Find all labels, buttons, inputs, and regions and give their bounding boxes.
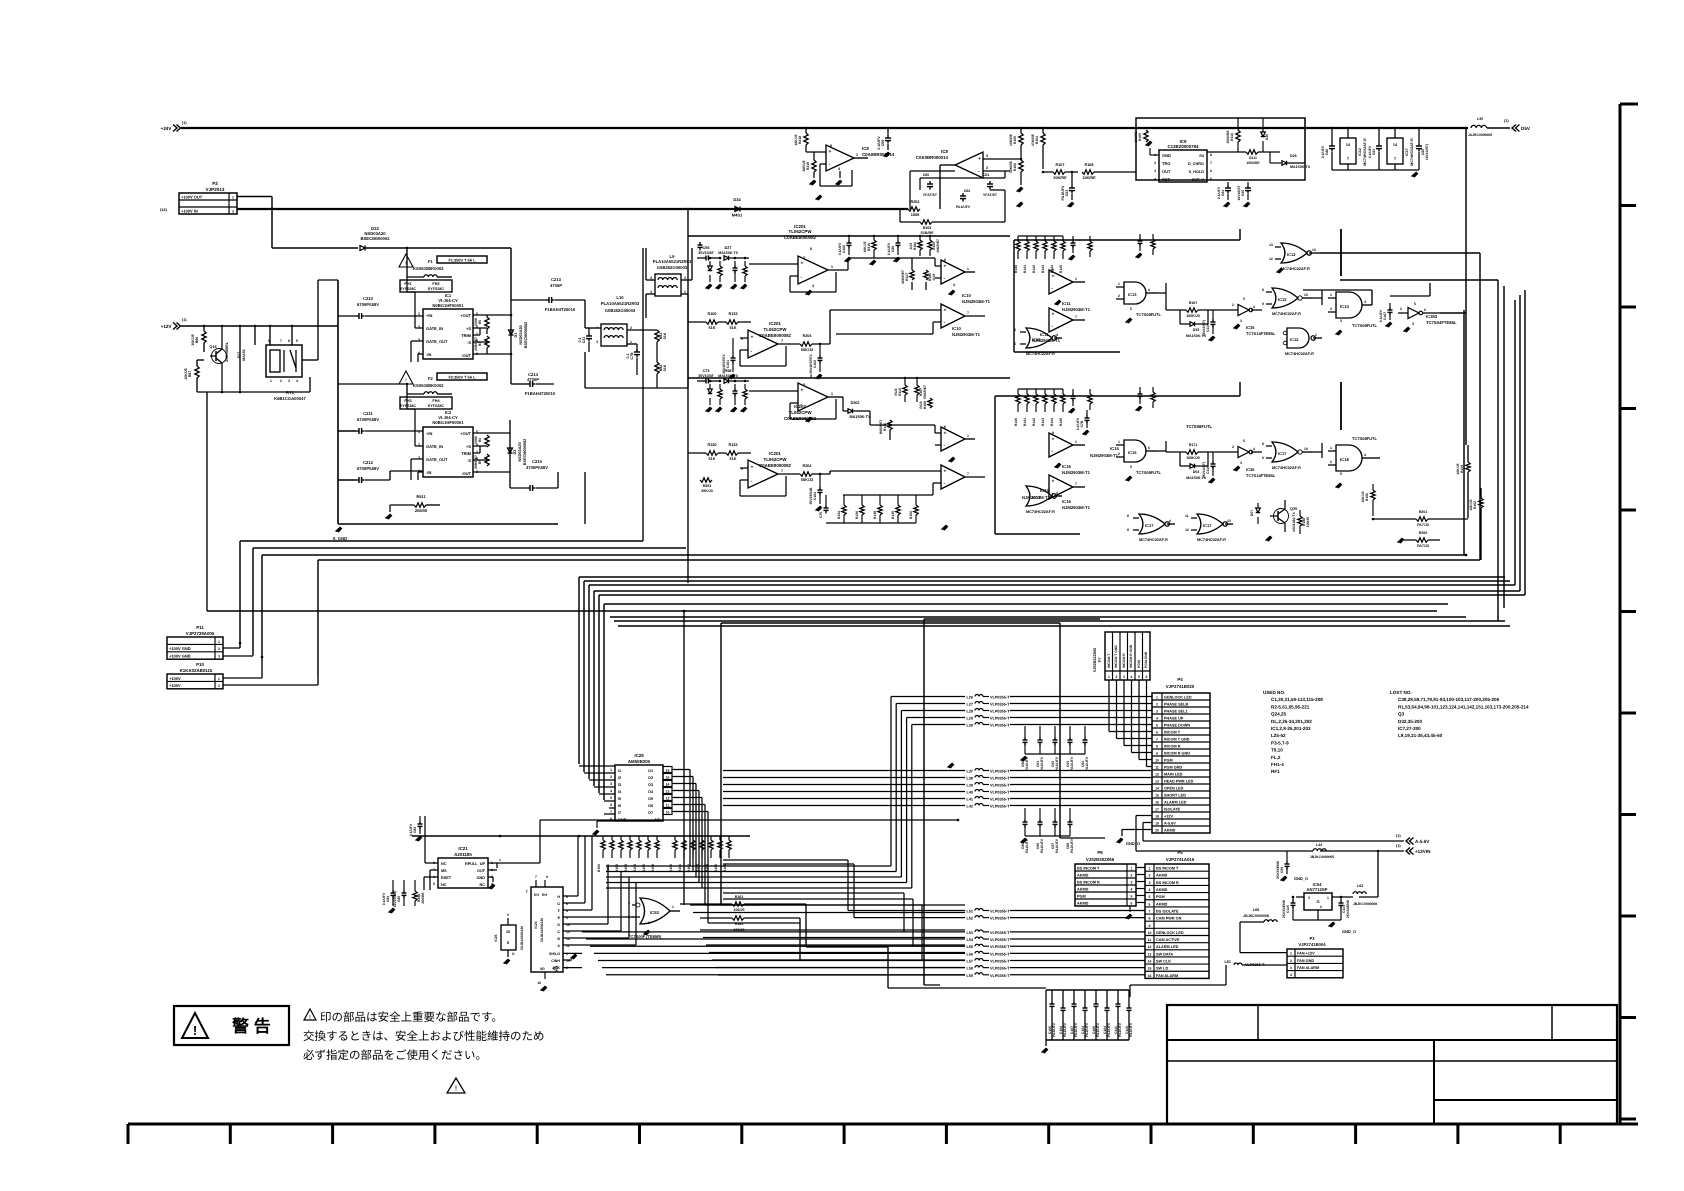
wire upper block frame bbox=[1013, 240, 1015, 352]
svg-text:AKMD: AKMD bbox=[1077, 873, 1089, 877]
svg-text:16: 16 bbox=[506, 930, 510, 934]
svg-text:MC74HC02AF-R: MC74HC02AF-R bbox=[1272, 312, 1301, 316]
capacitor C100 bbox=[698, 244, 703, 246]
svg-text:R153: R153 bbox=[624, 864, 628, 872]
svg-text:8: 8 bbox=[944, 258, 946, 262]
svg-text:5: 5 bbox=[1210, 177, 1212, 181]
svg-text:IC11: IC11 bbox=[1062, 301, 1071, 306]
svg-text:C0JBA0000130: C0JBA0000130 bbox=[520, 926, 524, 950]
svg-text:1: 1 bbox=[672, 905, 674, 909]
svg-text:L28: L28 bbox=[966, 710, 973, 714]
svg-text:R202: R202 bbox=[910, 200, 919, 204]
svg-text:HEAD PWR LED: HEAD PWR LED bbox=[1164, 779, 1194, 783]
svg-text:35V10/3F: 35V10/3F bbox=[698, 251, 714, 255]
svg-text:PA1/UFV: PA1/UFV bbox=[1052, 1022, 1056, 1037]
svg-text:10V10/ST: 10V10/ST bbox=[1237, 185, 1241, 201]
svg-text:ALARM LED: ALARM LED bbox=[1164, 800, 1187, 804]
svg-text:7: 7 bbox=[1394, 157, 1396, 161]
resistor R169 bbox=[928, 398, 932, 408]
svg-text:10K/J5: 10K/J5 bbox=[794, 134, 798, 145]
svg-text:SW CLK: SW CLK bbox=[1156, 960, 1171, 964]
svg-text:GATE_OUT: GATE_OUT bbox=[426, 457, 448, 462]
svg-text:+OUT: +OUT bbox=[460, 313, 471, 318]
svg-text:R119: R119 bbox=[1460, 465, 1464, 473]
svg-text:VJP2013: VJP2013 bbox=[206, 187, 225, 192]
svg-text:+12VIN: +12VIN bbox=[1415, 849, 1431, 854]
wire C21x feed vertical bbox=[337, 280, 339, 524]
svg-text:2SB0588RL: 2SB0588RL bbox=[225, 341, 229, 362]
svg-text:IC36: IC36 bbox=[1246, 467, 1255, 472]
svg-text:PA1/UFV: PA1/UFV bbox=[1063, 1022, 1067, 1037]
capacitor C101 bbox=[731, 357, 736, 359]
svg-text:16V10/ST): 16V10/ST) bbox=[1202, 320, 1206, 336]
svg-text:7: 7 bbox=[1210, 161, 1212, 165]
svg-text:2: 2 bbox=[1330, 460, 1332, 464]
connector P3 bbox=[1287, 949, 1343, 978]
svg-text:IC12: IC12 bbox=[1287, 252, 1296, 257]
svg-text:51K: 51K bbox=[663, 364, 667, 371]
svg-text:VLP0355-T: VLP0355-T bbox=[990, 724, 1010, 728]
svg-text:AM50B205: AM50B205 bbox=[628, 759, 651, 764]
svg-text:10K/J5: 10K/J5 bbox=[863, 241, 867, 252]
svg-text:+100V: +100V bbox=[169, 676, 181, 681]
resistor R108 bbox=[1082, 170, 1094, 174]
svg-text:K6B1CGA00047: K6B1CGA00047 bbox=[274, 396, 306, 401]
svg-text:I1: I1 bbox=[618, 769, 621, 773]
svg-text:OPEN LED: OPEN LED bbox=[1164, 786, 1184, 790]
svg-text:4: 4 bbox=[1149, 888, 1151, 892]
wire IC14 to bundle bbox=[1371, 290, 1373, 305]
svg-text:IC17: IC17 bbox=[1032, 495, 1041, 500]
svg-text:C61: C61 bbox=[983, 173, 990, 177]
svg-text:C0A0BR000014: C0A0BR000014 bbox=[862, 152, 895, 157]
svg-text:0.1/UFV: 0.1/UFV bbox=[1217, 186, 1221, 199]
svg-text:L29: L29 bbox=[966, 717, 973, 721]
svg-text:5: 5 bbox=[610, 796, 612, 800]
svg-text:+: + bbox=[944, 264, 947, 270]
wire P4 +12V bbox=[1136, 815, 1152, 817]
svg-text:IC17: IC17 bbox=[1278, 451, 1287, 456]
svg-text:IC12: IC12 bbox=[1358, 148, 1362, 156]
svg-text:CINH: CINH bbox=[551, 959, 560, 963]
svg-text:(1): (1) bbox=[182, 121, 187, 125]
svg-text:F1BAH4720010: F1BAH4720010 bbox=[525, 391, 556, 396]
wire bus y621 bbox=[614, 620, 1505, 622]
svg-text:1500/RE: 1500/RE bbox=[1226, 130, 1230, 144]
wires IC28 left bbox=[579, 765, 615, 767]
connector P7 bbox=[1105, 632, 1150, 680]
svg-text:330K: 330K bbox=[474, 435, 478, 444]
svg-text:R134: R134 bbox=[837, 511, 841, 519]
svg-text:F2:350V T 5A L: F2:350V T 5A L bbox=[448, 376, 476, 380]
title block left thin line bbox=[1167, 1060, 1434, 1062]
svg-text:6: 6 bbox=[610, 803, 612, 807]
svg-text:IC201: IC201 bbox=[769, 451, 781, 456]
wire IC201c out bbox=[829, 471, 831, 474]
svg-text:13: 13 bbox=[1269, 243, 1273, 247]
svg-text:S_HOLD: S_HOLD bbox=[1189, 170, 1205, 174]
svg-text:A-5.6V: A-5.6V bbox=[1415, 839, 1430, 844]
svg-text:8: 8 bbox=[288, 339, 290, 343]
svg-text:VLP0355-T: VLP0355-T bbox=[990, 703, 1010, 707]
comparator IC11b bbox=[1049, 308, 1073, 332]
svg-text:O3: O3 bbox=[648, 783, 653, 787]
svg-text:IC13: IC13 bbox=[1128, 292, 1137, 297]
svg-text:10: 10 bbox=[1155, 758, 1159, 762]
capacitor C211 bbox=[358, 428, 360, 434]
capacitor C212 bbox=[358, 477, 360, 483]
and gate IC14 bbox=[1336, 292, 1362, 318]
svg-text:SH/LO: SH/LO bbox=[549, 952, 560, 956]
svg-text:4: 4 bbox=[610, 789, 612, 793]
svg-text:3: 3 bbox=[1131, 880, 1133, 884]
svg-text:PA1/UFV: PA1/UFV bbox=[1061, 185, 1065, 201]
svg-text:5: 5 bbox=[1130, 465, 1132, 469]
svg-text:VLP0355-T: VLP0355-T bbox=[990, 784, 1010, 788]
resistor R219 bbox=[812, 160, 816, 172]
wire resistor bus rail bbox=[412, 835, 750, 837]
svg-text:5: 5 bbox=[628, 915, 630, 919]
resistor R203b bbox=[920, 220, 932, 224]
svg-text:F2: F2 bbox=[428, 376, 433, 381]
wire IC2 bottom rail bbox=[338, 523, 558, 525]
resistor R110 bbox=[1236, 130, 1240, 142]
resistor R104 bbox=[1041, 133, 1045, 145]
inverter IC35 bbox=[1238, 305, 1249, 316]
capacitor C210 bbox=[358, 313, 360, 319]
svg-text:MA150K-TX: MA150K-TX bbox=[1290, 165, 1311, 169]
svg-text:SW DATA: SW DATA bbox=[1156, 952, 1173, 956]
comparator IC10a bbox=[941, 260, 965, 284]
svg-text:50K/RE7: 50K/RE7 bbox=[923, 385, 927, 399]
transformer L9 bbox=[655, 274, 681, 296]
svg-text:+100V GND: +100V GND bbox=[169, 654, 191, 659]
svg-text:16: 16 bbox=[1148, 974, 1152, 978]
svg-text:AKMD: AKMD bbox=[1077, 901, 1089, 905]
svg-text:3: 3 bbox=[1123, 675, 1125, 679]
svg-text:3: 3 bbox=[288, 379, 290, 383]
svg-text:Q25: Q25 bbox=[1290, 507, 1297, 511]
svg-text:51K: 51K bbox=[730, 457, 737, 461]
wires left mesh to L51 rows bbox=[848, 910, 965, 912]
svg-text:NJM2903M-T1: NJM2903M-T1 bbox=[962, 299, 991, 304]
svg-text:25V33/EHB: 25V33/EHB bbox=[1276, 860, 1280, 878]
svg-text:6: 6 bbox=[1146, 675, 1148, 679]
svg-text:PA1/UFV: PA1/UFV bbox=[1085, 1022, 1089, 1037]
svg-text:R162: R162 bbox=[687, 864, 691, 872]
svg-text:IC10: IC10 bbox=[962, 293, 972, 298]
svg-text:C59: C59 bbox=[881, 140, 885, 147]
svg-text:R203: R203 bbox=[703, 484, 712, 488]
svg-text:NC: NC bbox=[441, 883, 447, 887]
svg-text:C1,30,31,59-113,115-208: C1,30,31,59-113,115-208 bbox=[1271, 697, 1323, 702]
wire right bundle verticals bbox=[1463, 310, 1465, 555]
svg-text:+S: +S bbox=[466, 326, 471, 331]
resistor R184 bbox=[918, 240, 922, 250]
wire +24V rail bbox=[181, 127, 1468, 129]
svg-text:L59: L59 bbox=[966, 974, 973, 978]
svg-text:R0R/RE7: R0R/RE7 bbox=[879, 420, 883, 434]
svg-text:D34: D34 bbox=[733, 197, 741, 202]
svg-text:VJP2741B004: VJP2741B004 bbox=[1298, 942, 1326, 947]
svg-text:51K: 51K bbox=[663, 332, 667, 339]
title block top row cell line 1 bbox=[1257, 1005, 1259, 1040]
svg-text:D32,35-200: D32,35-200 bbox=[1398, 719, 1422, 724]
svg-text:C210: C210 bbox=[363, 296, 374, 301]
resistor R148 bbox=[1298, 516, 1302, 526]
svg-text:C: C bbox=[557, 930, 560, 934]
wire P4 A-5.6V out bbox=[1143, 822, 1152, 824]
svg-text:EYFS28C: EYFS28C bbox=[400, 287, 416, 291]
svg-text:50K/J3: 50K/J3 bbox=[801, 478, 813, 482]
svg-text:C212: C212 bbox=[363, 460, 374, 465]
svg-text:1: 1 bbox=[610, 768, 612, 772]
wire bus y626 bbox=[618, 625, 1510, 627]
svg-text:C73: C73 bbox=[703, 369, 710, 373]
diode D35 bbox=[1261, 132, 1266, 137]
resistor R167b bbox=[1186, 308, 1198, 312]
svg-text:IC15: IC15 bbox=[1128, 450, 1137, 455]
svg-text:GATE_IN: GATE_IN bbox=[426, 444, 443, 449]
svg-text:BS ISOLATE: BS ISOLATE bbox=[1156, 909, 1179, 913]
svg-text:+12V: +12V bbox=[161, 324, 173, 329]
svg-text:4: 4 bbox=[1156, 716, 1158, 720]
svg-text:IC8: IC8 bbox=[862, 146, 869, 151]
svg-text:3: 3 bbox=[1149, 881, 1151, 885]
svg-text:L51: L51 bbox=[966, 910, 973, 914]
arrow +12VIN bbox=[1406, 848, 1410, 855]
title block right thin line bbox=[1434, 1060, 1617, 1062]
svg-text:C118: C118 bbox=[1206, 466, 1210, 474]
wire IC2 gate loop bbox=[415, 445, 423, 447]
svg-text:6700P/UBV: 6700P/UBV bbox=[357, 302, 379, 307]
inductor L35 bbox=[1471, 125, 1487, 128]
svg-text:O6: O6 bbox=[648, 804, 653, 808]
wire L61 left bbox=[1225, 965, 1227, 985]
svg-text:RF1: RF1 bbox=[1271, 769, 1280, 774]
svg-text:R/J3: R/J3 bbox=[894, 388, 898, 395]
svg-text:47K/RE: 47K/RE bbox=[1031, 133, 1035, 146]
diode D202 bbox=[848, 409, 853, 414]
svg-text:1000: 1000 bbox=[911, 213, 919, 217]
resistor row R15x bbox=[601, 840, 605, 850]
svg-text:5: 5 bbox=[1156, 723, 1158, 727]
svg-text:G: G bbox=[512, 952, 515, 956]
svg-text:6700P/UBV: 6700P/UBV bbox=[357, 417, 379, 422]
svg-text:P3: P3 bbox=[1309, 936, 1315, 941]
wire to IC15a bbox=[869, 411, 871, 425]
svg-text:IC23: IC23 bbox=[534, 921, 538, 928]
svg-text:7: 7 bbox=[280, 339, 282, 343]
svg-text:D54: D54 bbox=[1193, 470, 1200, 474]
svg-text:20K/J3: 20K/J3 bbox=[701, 489, 713, 493]
svg-text:R136: R136 bbox=[883, 423, 887, 431]
wire IC21 right bbox=[488, 862, 497, 864]
wire D32 to C213 node bbox=[365, 247, 511, 249]
svg-text:3: 3 bbox=[1308, 896, 1310, 900]
svg-text:R142: R142 bbox=[1032, 265, 1036, 273]
input network C66/D27 bbox=[705, 256, 707, 261]
svg-text:P11: P11 bbox=[196, 625, 204, 630]
capacitor group C90-C94 bbox=[1023, 739, 1028, 741]
svg-text:8: 8 bbox=[944, 425, 946, 429]
svg-text:+IN: +IN bbox=[426, 431, 432, 436]
connector P4 bbox=[1152, 693, 1210, 833]
svg-text:2: 2 bbox=[610, 775, 612, 779]
resistor R106 bbox=[1019, 160, 1023, 172]
svg-text:(1): (1) bbox=[1396, 834, 1401, 838]
svg-text:35V33/54B: 35V33/54B bbox=[809, 487, 813, 505]
svg-text:L60: L60 bbox=[1253, 908, 1260, 912]
capacitor C84 bbox=[391, 892, 396, 894]
wire P10 pin1 bbox=[223, 677, 262, 679]
svg-text:R87: R87 bbox=[188, 371, 192, 378]
svg-text:IC12: IC12 bbox=[1278, 297, 1287, 302]
svg-text:R106: R106 bbox=[1013, 163, 1017, 171]
svg-text:2: 2 bbox=[1118, 294, 1120, 298]
svg-text:+IN: +IN bbox=[426, 313, 432, 318]
svg-text:0/J3: 0/J3 bbox=[909, 243, 913, 250]
comparator IC15a bbox=[941, 427, 965, 451]
svg-text:R156: R156 bbox=[651, 864, 655, 872]
wire IC9 top rail bbox=[1135, 127, 1138, 130]
svg-text:7: 7 bbox=[1156, 737, 1158, 741]
page frame right border bbox=[1619, 104, 1622, 1125]
capacitor C118 bbox=[1211, 463, 1216, 465]
svg-text:R204: R204 bbox=[802, 464, 812, 468]
svg-text:3: 3 bbox=[1240, 461, 1242, 465]
svg-text:17: 17 bbox=[1155, 807, 1159, 811]
svg-text:4: 4 bbox=[838, 167, 840, 171]
+12V input arrow bbox=[173, 323, 177, 330]
svg-text:1: 1 bbox=[1327, 896, 1329, 900]
svg-text:VLP0355-T: VLP0355-T bbox=[990, 974, 1010, 978]
svg-text:51K: 51K bbox=[730, 326, 737, 330]
resistor R157 bbox=[915, 385, 919, 395]
svg-text:10K/J5: 10K/J5 bbox=[184, 368, 188, 380]
svg-text:9: 9 bbox=[1156, 751, 1158, 755]
svg-text:AKMD: AKMD bbox=[1156, 902, 1168, 906]
svg-text:TC7S08FUTL: TC7S08FUTL bbox=[1352, 436, 1377, 441]
svg-text:L56: L56 bbox=[966, 952, 973, 956]
svg-text:2: 2 bbox=[1232, 303, 1234, 307]
ground R511 bbox=[386, 514, 391, 519]
svg-text:10: 10 bbox=[537, 981, 541, 985]
svg-text:10K/J3: 10K/J3 bbox=[1361, 491, 1365, 502]
capacitor C102 bbox=[818, 357, 823, 359]
svg-text:+: + bbox=[829, 149, 832, 155]
resistor R160 bbox=[1371, 490, 1375, 500]
svg-text:FAN ALARM: FAN ALARM bbox=[1156, 974, 1178, 978]
svg-text:-IN: -IN bbox=[426, 470, 431, 475]
svg-text:1500/RE: 1500/RE bbox=[1246, 161, 1260, 165]
svg-text:9: 9 bbox=[1149, 924, 1151, 928]
op-amp IC201a bbox=[798, 256, 828, 284]
svg-text:BSECM000002: BSECM000002 bbox=[360, 236, 390, 241]
svg-text:GND_O: GND_O bbox=[1294, 876, 1308, 881]
svg-text:RH: RH bbox=[542, 893, 547, 897]
svg-text:+: + bbox=[751, 465, 754, 471]
svg-text:4: 4 bbox=[1169, 519, 1171, 523]
svg-text:PA1/UFV: PA1/UFV bbox=[1040, 838, 1044, 853]
svg-text:OUT: OUT bbox=[477, 869, 486, 873]
svg-text:S_GND: S_GND bbox=[333, 536, 347, 541]
svg-text:10: 10 bbox=[1304, 293, 1308, 297]
svg-text:R133: R133 bbox=[728, 312, 737, 316]
svg-text:C213: C213 bbox=[551, 277, 562, 282]
svg-text:2: 2 bbox=[1149, 874, 1151, 878]
wire bus y541 bbox=[240, 540, 643, 542]
svg-text:0.1/UFV: 0.1/UFV bbox=[1321, 145, 1325, 158]
capacitor C167 bbox=[1388, 309, 1393, 311]
svg-text:TRIM: TRIM bbox=[461, 333, 471, 338]
resistor R136b bbox=[888, 420, 892, 430]
svg-text:16: 16 bbox=[1155, 800, 1159, 804]
svg-text:R152: R152 bbox=[615, 864, 619, 872]
fuse F1 bbox=[424, 275, 437, 277]
svg-text:PA7/J3: PA7/J3 bbox=[1417, 544, 1429, 548]
svg-text:10: 10 bbox=[1304, 447, 1308, 451]
svg-text:100/J5: 100/J5 bbox=[1306, 517, 1310, 527]
svg-text:C100: C100 bbox=[842, 245, 846, 253]
svg-text:MS: MS bbox=[441, 869, 447, 873]
resistor R81 bbox=[655, 330, 659, 342]
svg-text:R169: R169 bbox=[923, 401, 927, 409]
svg-text:IC53: IC53 bbox=[650, 910, 660, 915]
svg-text:NSD03A20: NSD03A20 bbox=[519, 325, 523, 344]
wire IC2 outputs bbox=[473, 432, 510, 434]
wire left col down bbox=[206, 392, 208, 611]
svg-text:R160: R160 bbox=[1365, 493, 1369, 501]
svg-text:11: 11 bbox=[1155, 765, 1159, 769]
svg-text:5: 5 bbox=[1149, 895, 1151, 899]
svg-text:C7B: C7B bbox=[630, 352, 634, 360]
junction dots +12V rail bbox=[203, 325, 206, 328]
svg-text:0.1/UFV: 0.1/UFV bbox=[409, 823, 413, 836]
svg-text:1: 1 bbox=[967, 267, 969, 271]
svg-text:8: 8 bbox=[1052, 268, 1054, 272]
svg-text:VJP2741A016: VJP2741A016 bbox=[1166, 857, 1195, 862]
svg-text:VLP0355-T: VLP0355-T bbox=[990, 777, 1010, 781]
svg-text:20R/RE7: 20R/RE7 bbox=[474, 455, 478, 469]
svg-text:L26: L26 bbox=[966, 696, 973, 700]
resistor R511 bbox=[414, 503, 426, 507]
svg-text:TL062CPW: TL062CPW bbox=[789, 229, 813, 234]
capacitor C115a bbox=[1291, 902, 1296, 904]
svg-text:10K/J5: 10K/J5 bbox=[1456, 463, 1460, 474]
svg-text:I6: I6 bbox=[618, 804, 621, 808]
svg-text:2: 2 bbox=[1154, 161, 1156, 165]
capacitor C113 bbox=[1339, 902, 1344, 904]
svg-text:C101: C101 bbox=[726, 360, 730, 368]
svg-text:13: 13 bbox=[1227, 519, 1231, 523]
svg-text:L27: L27 bbox=[966, 703, 973, 707]
fuse F2 box label bbox=[437, 373, 487, 380]
svg-text:5: 5 bbox=[1340, 472, 1342, 476]
svg-text:10K/RE7: 10K/RE7 bbox=[936, 239, 940, 253]
capacitor C99 bbox=[1285, 863, 1290, 865]
wire bottom vert x925 bbox=[923, 619, 925, 985]
svg-text:G0B352G00003: G0B352G00003 bbox=[657, 265, 688, 270]
svg-text:PHASE DOWN: PHASE DOWN bbox=[1164, 723, 1190, 727]
connector P10 bbox=[167, 674, 223, 689]
svg-text:R145: R145 bbox=[1059, 265, 1063, 273]
svg-text:IC393: IC393 bbox=[1426, 314, 1438, 319]
wire mid vertical x688 bbox=[687, 209, 689, 583]
svg-text:NJM2903M-T1: NJM2903M-T1 bbox=[1062, 307, 1091, 312]
resistor R111 bbox=[1246, 150, 1258, 154]
svg-text:I2: I2 bbox=[618, 776, 621, 780]
